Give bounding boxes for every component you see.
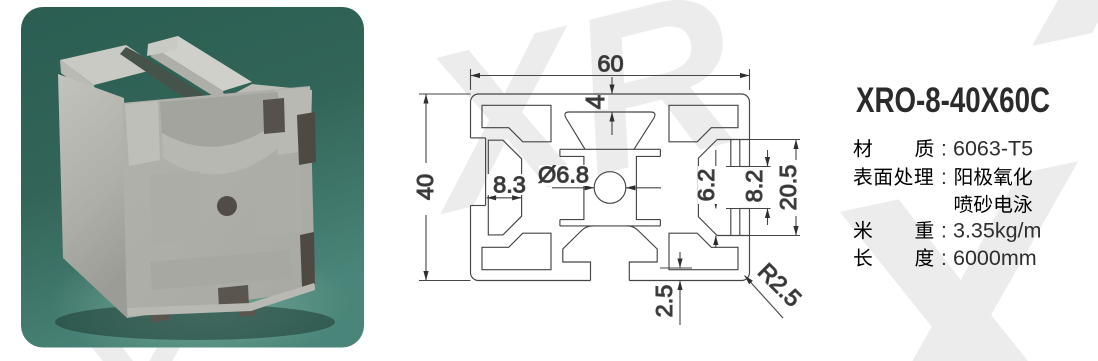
- aluminium profile: back-left fin slab: [58, 36, 316, 322]
- dim 8.3 left slot: [488, 174, 528, 195]
- bottom slots dark: [152, 308, 170, 322]
- svg-text:6000mm: 6000mm: [953, 246, 1037, 270]
- svg-text:8.3: 8.3: [493, 172, 526, 198]
- web step right: [659, 149, 661, 156]
- web step left: [559, 149, 561, 156]
- center left block: [560, 156, 584, 219]
- right face T-slot: [717, 139, 749, 141]
- dim 8.2 right slot opening: [726, 166, 771, 168]
- section: mid cavities: [150, 171, 202, 245]
- left side hex slot cavity: [488, 140, 521, 235]
- left face wide groove: [471, 137, 486, 139]
- center hole: [217, 196, 237, 216]
- dim 40 left: [419, 93, 471, 95]
- svg-text:XRO-8-40X60C: XRO-8-40X60C: [856, 81, 1050, 120]
- svg-text:40: 40: [412, 174, 438, 200]
- svg-text:60: 60: [597, 51, 623, 77]
- section: U channel: [160, 92, 280, 149]
- corner cavity top-right: [669, 105, 738, 142]
- dim 60 top: [470, 69, 472, 90]
- bottom cavity shading: [150, 250, 292, 290]
- web top line: [560, 148, 661, 150]
- section: top fins bright ends: [125, 101, 160, 166]
- corner cavity bottom-left: [482, 233, 551, 270]
- svg-text:8.2: 8.2: [741, 170, 767, 203]
- profile outer outline: [479, 93, 742, 95]
- svg-text:6.2: 6.2: [693, 169, 719, 202]
- glow behind profile bottom: [50, 241, 350, 361]
- svg-text::: :: [941, 220, 947, 243]
- technical drawing: [471, 94, 750, 281]
- floating fin slab: [148, 36, 252, 91]
- web bottom line: [560, 225, 661, 227]
- svg-text::: :: [941, 166, 947, 189]
- shadow under profile: [55, 304, 335, 340]
- svg-text:Ø6.8: Ø6.8: [538, 162, 589, 188]
- svg-text:4: 4: [580, 95, 610, 109]
- svg-text:20.5: 20.5: [775, 165, 801, 211]
- corner cavity bottom-right: [669, 233, 738, 270]
- cross-section face: [122, 86, 315, 318]
- center hole circle: [594, 172, 626, 204]
- corner cavity top-left: [482, 105, 551, 142]
- right edge T-slots dark: [297, 112, 316, 165]
- body top-right shoulder: [226, 84, 312, 137]
- bottom T-slot: [563, 226, 593, 281]
- dim 4 top slot wall: [611, 77, 613, 94]
- center right block: [636, 156, 660, 219]
- bottom T-slot dark: [218, 285, 249, 309]
- svg-text::: :: [941, 247, 947, 270]
- dim 6.2 right slot lip: [715, 150, 717, 209]
- left side face (brushed): [58, 74, 127, 318]
- svg-text:6063-T5: 6063-T5: [953, 137, 1033, 161]
- svg-text:3.35kg/m: 3.35kg/m: [953, 219, 1041, 243]
- svg-text:2.5: 2.5: [651, 285, 677, 318]
- svg-text::: :: [941, 138, 947, 161]
- bottom bright edge: [127, 283, 315, 316]
- dark channel between block and slab: [120, 47, 225, 111]
- dim diameter 6.8 center hole: [552, 187, 594, 189]
- dim R2.5 corner radius: [745, 276, 784, 319]
- dim 20.5 right slot cavity height: [750, 139, 801, 141]
- dim 2.5 bottom wall: [660, 267, 692, 269]
- top trapezoid cavity: [565, 112, 655, 149]
- spec table: [854, 137, 1042, 270]
